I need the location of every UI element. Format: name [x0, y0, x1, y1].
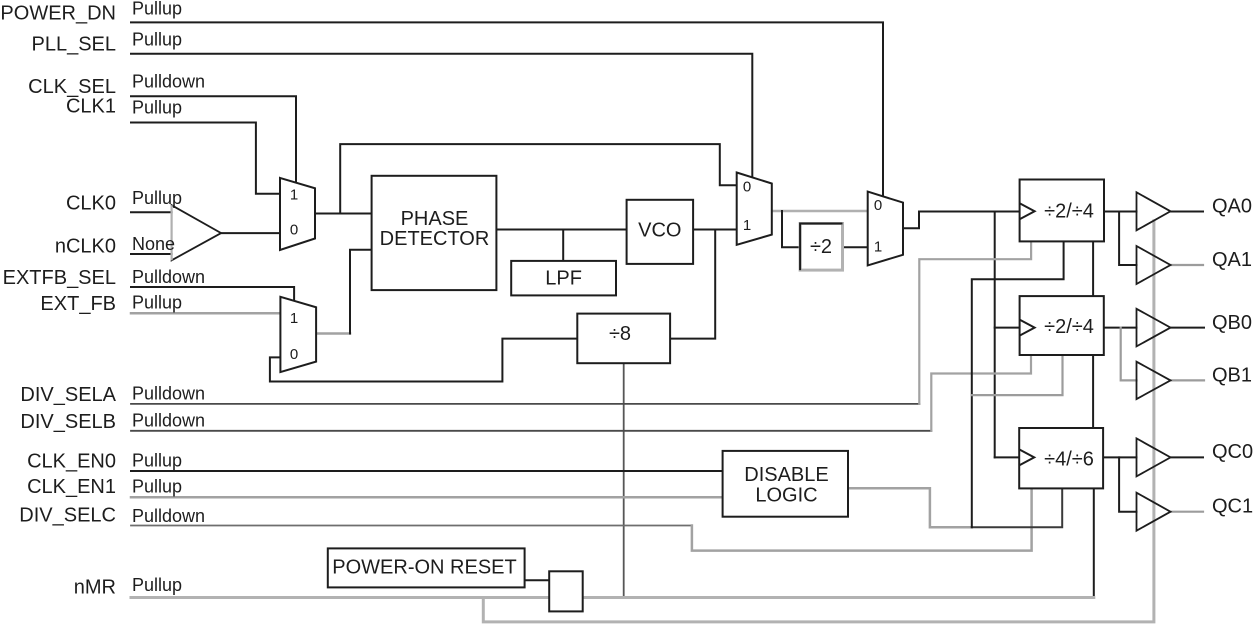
wire tap to QC1 buffer: [1119, 457, 1136, 511]
wire tap to QA1 buffer: [1119, 212, 1136, 266]
output buffer QB1: [1137, 362, 1171, 399]
wire nMR run: [131, 596, 1094, 599]
wire divider /8 reset from nMR net: [623, 363, 625, 596]
svg-text:POWER_DN: POWER_DN: [0, 2, 116, 24]
input buffer for CLK0 nCLK0: [172, 205, 222, 260]
mux U3: [737, 173, 772, 245]
wire input buffer output to mux U1 input 0: [221, 232, 280, 234]
svg-text:Pulldown: Pulldown: [132, 267, 205, 287]
wire tap into divider /2: [782, 211, 800, 247]
wire clock feed down to divider banks B and C: [994, 212, 996, 458]
svg-text:0: 0: [290, 346, 298, 363]
wire disable logic output: [848, 488, 972, 527]
wire tap to QB1 buffer: [1121, 328, 1137, 381]
svg-text:÷2: ÷2: [810, 236, 832, 258]
divider bank B block: [1020, 296, 1104, 355]
wire clock feed into divider bank B: [995, 327, 1020, 329]
svg-text:Pulldown: Pulldown: [132, 384, 205, 404]
svg-text:1: 1: [743, 217, 751, 234]
wire clock feed into divider bank C: [995, 456, 1020, 458]
wire divider /8 output to mux U2 input 0: [270, 339, 577, 382]
divider bank A block: [1020, 180, 1104, 242]
svg-text:VCO: VCO: [638, 220, 681, 242]
wire enable net riser to divider bank A: [972, 241, 1064, 527]
wire CLK_EN1 to disable logic: [131, 496, 723, 499]
wire nCLK0 to input buffer: [131, 253, 172, 255]
wire nMR branch to output buffer enable rail: [483, 221, 1154, 622]
wire POWER_DN to mux U4 select: [131, 22, 883, 196]
svg-text:nCLK0: nCLK0: [55, 236, 116, 258]
svg-text:EXTFB_SEL: EXTFB_SEL: [3, 267, 116, 289]
output buffer QA0: [1137, 192, 1171, 230]
wire EXTFB_SEL to mux U2 select: [131, 287, 294, 301]
wire QB0 output: [1171, 327, 1205, 329]
svg-text:Pullup: Pullup: [132, 293, 182, 313]
wire reset chain divider C to nMR net: [1093, 488, 1095, 597]
wire CLK1 to mux U1 input 1: [131, 123, 280, 194]
svg-text:QB1: QB1: [1212, 364, 1252, 386]
wire mux U4 output to divider bank A: [903, 212, 1020, 229]
svg-text:Pullup: Pullup: [132, 188, 182, 208]
disable logic block: [723, 451, 848, 517]
wire VCO output tap down to divider /8: [670, 230, 715, 339]
svg-text:÷4/÷6: ÷4/÷6: [1044, 448, 1094, 470]
wire divider bank A output to QA0 buffer: [1104, 211, 1137, 213]
wire mux U3 output to mux U4 input 0: [772, 210, 868, 213]
input buffer gray left edge: [171, 205, 173, 260]
wire divider bank B output to QB0 buffer: [1104, 327, 1137, 329]
wire CLK_SEL to mux U1 select: [131, 96, 296, 183]
phase detector block: [372, 176, 497, 290]
svg-text:LPF: LPF: [545, 268, 582, 290]
svg-text:QC0: QC0: [1212, 441, 1253, 463]
wire DIV_SELA riser to divider bank A select: [919, 241, 1031, 404]
wire PLL_SEL to mux U3 select: [131, 54, 752, 178]
output buffer QC1: [1137, 493, 1171, 531]
svg-text:0: 0: [874, 197, 882, 214]
svg-text:POWER-ON RESET: POWER-ON RESET: [332, 557, 516, 579]
wire DIV_SELB riser to divider bank B select: [931, 355, 1031, 431]
svg-text:DIV_SELB: DIV_SELB: [20, 411, 116, 433]
svg-text:1: 1: [290, 310, 298, 327]
svg-text:nMR: nMR: [74, 577, 116, 599]
svg-text:Pulldown: Pulldown: [132, 72, 205, 92]
wire QA1 output: [1171, 264, 1204, 266]
wire enable net branch to divider bank B: [972, 355, 1063, 395]
svg-text:DIV_SELC: DIV_SELC: [19, 505, 116, 527]
svg-text:Pullup: Pullup: [132, 98, 182, 118]
svg-text:None: None: [132, 234, 175, 254]
svg-text:0: 0: [743, 179, 751, 196]
svg-text:QC1: QC1: [1212, 496, 1253, 518]
clock pin symbol divider bank B: [1020, 320, 1035, 336]
wire POWER-ON RESET output to merge square: [525, 579, 550, 581]
wire mux U1 output to phase detector: [315, 213, 372, 215]
divider bank C block: [1019, 428, 1103, 488]
svg-text:QA0: QA0: [1212, 195, 1252, 217]
svg-text:÷2/÷4: ÷2/÷4: [1044, 316, 1094, 338]
wire PLL bypass feedforward node to mux U3 input 0: [340, 144, 737, 213]
divider /2 block two-tone border: [800, 224, 842, 271]
wire QB1 output: [1171, 379, 1205, 381]
svg-text:Pullup: Pullup: [132, 451, 182, 471]
svg-text:Pullup: Pullup: [132, 477, 182, 497]
svg-text:DIV_SELA: DIV_SELA: [20, 384, 116, 406]
wire divider bank C output to QC0 buffer: [1103, 456, 1136, 458]
wire EXT_FB to mux U2 input 1: [131, 312, 280, 315]
svg-text:CLK0: CLK0: [66, 193, 116, 215]
wire enable net to divider bank C: [972, 488, 1062, 527]
wire DIV_SELC riser to divider bank C select: [692, 488, 1032, 550]
wire DIV_SELB run: [131, 430, 931, 432]
svg-text:1: 1: [874, 238, 882, 255]
svg-text:DETECTOR: DETECTOR: [380, 228, 490, 250]
wire mux U2 output gray segment: [316, 332, 350, 335]
wire CLK0 to input buffer: [131, 211, 172, 213]
reset merge square: [549, 571, 583, 611]
divider /8 block: [577, 314, 670, 364]
svg-text:QA1: QA1: [1212, 249, 1252, 271]
svg-text:÷2/÷4: ÷2/÷4: [1044, 201, 1094, 223]
output buffer QC0: [1137, 438, 1171, 476]
output buffer QB0: [1137, 309, 1171, 347]
wire QA0 output: [1171, 211, 1204, 213]
wire divider /2 output to mux U4 input 1: [843, 246, 868, 248]
wire reset chain divider A to divider B: [1092, 241, 1094, 296]
output buffer QA1: [1137, 246, 1171, 284]
svg-text:QB0: QB0: [1212, 312, 1252, 334]
svg-text:CLK_EN0: CLK_EN0: [27, 451, 116, 473]
wire phase detector output to VCO: [496, 229, 626, 231]
svg-text:Pullup: Pullup: [132, 30, 182, 50]
wire DIV_SELA run: [131, 403, 919, 405]
svg-text:PHASE: PHASE: [401, 208, 469, 230]
wire DIV_SELC run: [131, 525, 692, 527]
svg-text:LOGIC: LOGIC: [755, 485, 817, 507]
LPF block: [511, 261, 616, 296]
svg-text:DISABLE: DISABLE: [744, 464, 828, 486]
wire feedback into phase detector lower input: [350, 250, 372, 334]
svg-text:÷8: ÷8: [609, 323, 631, 345]
svg-text:Pulldown: Pulldown: [132, 506, 205, 526]
wire VCO output to mux U3 input 1: [693, 229, 737, 231]
VCO block: [627, 200, 694, 264]
svg-text:PLL_SEL: PLL_SEL: [31, 34, 116, 56]
wire QC1 output: [1171, 511, 1204, 513]
wire reset chain divider B to divider C: [1092, 355, 1094, 428]
clock pin symbol divider bank A: [1020, 203, 1035, 219]
svg-text:1: 1: [290, 187, 298, 204]
wire LPF tap: [562, 230, 564, 261]
svg-text:CLK_EN1: CLK_EN1: [27, 476, 116, 498]
svg-text:EXT_FB: EXT_FB: [40, 293, 116, 315]
wire CLK_EN0 to disable logic: [131, 470, 723, 472]
svg-text:Pullup: Pullup: [132, 575, 182, 595]
svg-text:0: 0: [290, 222, 298, 239]
clock pin symbol divider bank C: [1019, 449, 1034, 465]
svg-text:Pullup: Pullup: [132, 0, 182, 18]
wire QC0 output: [1171, 456, 1204, 458]
mux U4: [868, 192, 903, 266]
power-on reset block: [328, 548, 525, 587]
mux U1: [280, 178, 315, 250]
mux U2: [280, 297, 316, 372]
svg-text:CLK1: CLK1: [66, 96, 116, 118]
svg-text:Pulldown: Pulldown: [132, 411, 205, 431]
